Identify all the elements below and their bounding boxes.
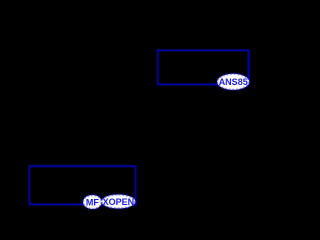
box ANS85 (upper dialect rectangle) <box>158 50 249 84</box>
bubble ANS85 <box>217 74 249 90</box>
bubble XOPEN <box>101 195 135 209</box>
box MF/XOPEN (lower dialect rectangle) <box>29 166 135 204</box>
svg-text:XOPEN: XOPEN <box>103 197 135 207</box>
svg-text:ANS85: ANS85 <box>219 77 248 87</box>
bubble MF <box>83 195 102 209</box>
svg-text:MF: MF <box>86 197 99 207</box>
